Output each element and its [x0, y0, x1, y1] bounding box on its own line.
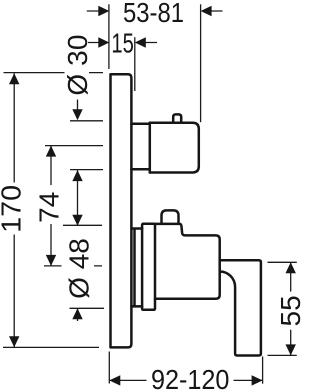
svg-text:92-120: 92-120 — [151, 364, 230, 392]
upper knob top button nub — [173, 114, 181, 122]
extension line: 92-120 left — [108, 352, 110, 384]
dim line 55 — [290, 262, 292, 355]
extension line: 15 right — [134, 37, 136, 91]
dim line 53-81 — [87, 10, 223, 12]
wall plate (escutcheon), side view — [111, 74, 132, 347]
upper knob back face — [149, 123, 152, 173]
extension line: diam48 bottom — [70, 307, 105, 309]
svg-text:170: 170 — [0, 185, 27, 233]
extension line: 53-81 right — [200, 4, 202, 122]
upper thermostat knob — [150, 123, 199, 173]
extension line: 170 top — [4, 72, 104, 74]
dim line diam30/diam48 chain — [77, 100, 79, 322]
extension line: 74 top (upper axis) — [45, 145, 103, 147]
lower knob top nub — [162, 210, 179, 223]
dim line 74 — [50, 146, 52, 266]
svg-text:Ø 48: Ø 48 — [64, 238, 95, 299]
extension line: 55 bottom — [268, 354, 297, 356]
lower flange ring (diam 48) — [142, 224, 155, 310]
extension line: wall face (top) — [108, 4, 110, 69]
extension line: diam48 top — [63, 224, 102, 226]
lower sleeve ring — [131, 229, 142, 307]
svg-text:Ø 30: Ø 30 — [62, 35, 93, 96]
extension line: 92-120 right — [262, 357, 264, 384]
svg-text:74: 74 — [34, 192, 65, 223]
extension line: diam30 top — [70, 120, 103, 122]
extension line: diam30 bottom — [70, 169, 103, 171]
lever handle — [220, 260, 261, 355]
extension line: 74 bottom (lower axis) — [44, 265, 102, 267]
svg-text:55: 55 — [275, 295, 304, 326]
svg-text:15: 15 — [111, 27, 134, 58]
extension line: 170 bottom — [3, 346, 99, 348]
dim line 92-120 — [109, 379, 262, 381]
svg-text:53-81: 53-81 — [123, 0, 184, 28]
upper thermostat sleeve — [131, 124, 148, 170]
dim line 15 — [88, 42, 157, 44]
dim line 170 — [13, 73, 15, 347]
lower valve body — [155, 224, 220, 299]
extension line: 55 top — [268, 261, 297, 263]
